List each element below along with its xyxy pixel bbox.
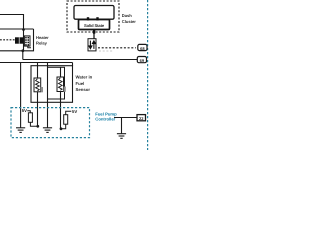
relay box top edge [0, 28, 34, 30]
water in fuel sensor inner box [48, 67, 65, 99]
svg-text:69: 69 [140, 58, 145, 63]
dash cluster dashed box [67, 1, 119, 32]
junction node A (fuse box to relay feed) [22, 28, 25, 31]
wire WIF sensor element top [60, 67, 62, 77]
wire ground drop right [121, 118, 123, 134]
svg-text:Controller: Controller [95, 117, 115, 122]
wire bus 1 to PCM pin 69 [23, 59, 138, 61]
wire to indicator box [93, 34, 95, 39]
relay K1 coil blob [15, 37, 23, 43]
pin stub gauge-left [87, 17, 89, 20]
PCM boundary (teal dashed vertical line) [147, 0, 149, 150]
svg-text:Solid State: Solid State [84, 23, 105, 28]
water in fuel sensor outer box [31, 66, 73, 103]
svg-text:5V: 5V [72, 109, 77, 114]
wire relay feed vertical [23, 29, 25, 51]
relay box right and bottom edge [0, 29, 34, 51]
dashed wire to PCM pin 68 [98, 47, 136, 49]
resistor R3 5V pull-up left [27, 111, 38, 127]
wire bus 2 drop into sensor box right edge [72, 63, 74, 67]
svg-text:Sensor: Sensor [76, 87, 91, 92]
ground G3 [117, 134, 126, 139]
svg-text:68: 68 [140, 46, 145, 51]
PCM pin 22 [137, 115, 146, 121]
svg-text:Dash: Dash [122, 13, 133, 18]
relay coil dashed actuator line [0, 39, 15, 41]
ground G2 [43, 128, 52, 133]
svg-text:5V: 5V [22, 108, 27, 113]
junction node C (heater sense junction) [36, 125, 39, 128]
faint ghost dashes [99, 50, 113, 52]
wire to PCM pin 22 [114, 117, 137, 119]
wire heater element bottom [37, 92, 39, 127]
pin stub below solid state [93, 30, 95, 34]
wire heater element top [37, 63, 39, 79]
junction node B (relay output on box bottom) [21, 49, 24, 52]
resistor R1 heater element [34, 78, 43, 92]
wire bus 2 from left edge [0, 62, 73, 64]
svg-text:Cluster: Cluster [122, 19, 137, 24]
wire WIF sensor bottom [60, 92, 62, 129]
svg-text:22: 22 [139, 116, 144, 121]
gauge module box [74, 6, 114, 20]
fuse box outline (top left, cut off at left edge) [0, 15, 24, 30]
PCM pin 69 [137, 57, 146, 63]
relay connector pins [24, 36, 31, 48]
pin stub gauge-right [96, 17, 98, 20]
wire ground drop left [20, 63, 22, 128]
svg-text:Fuel: Fuel [76, 81, 85, 86]
svg-text:Relay: Relay [36, 40, 48, 45]
svg-text:Fuel Pump: Fuel Pump [95, 111, 117, 116]
ground G1 [16, 128, 25, 133]
junction node D (WIF sense junction) [60, 127, 63, 130]
solid state module U1 [79, 20, 110, 30]
svg-text:Water in: Water in [76, 75, 93, 80]
wire from relay output down [22, 51, 24, 60]
resistor R4 5V pull-up right [61, 111, 72, 129]
PCM pin 68 [138, 44, 147, 50]
indicator box with arrows [88, 39, 96, 51]
resistor R2 WIF sensing element [57, 77, 66, 92]
wire middle ground drop [47, 63, 49, 128]
fuel pump controller dashed box [11, 108, 90, 138]
